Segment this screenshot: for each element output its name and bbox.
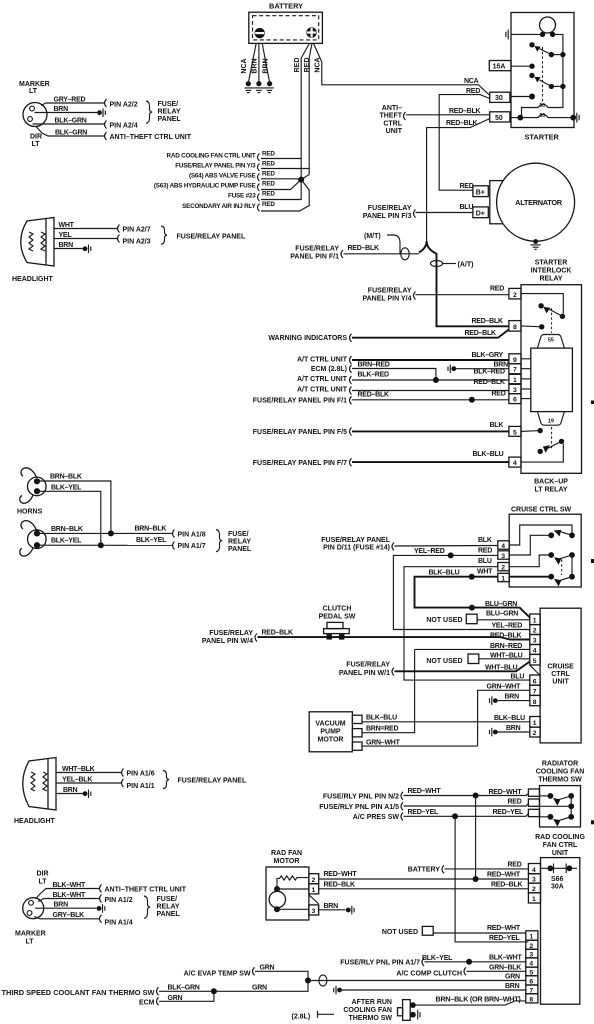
node hook PIN A1/7	[173, 542, 175, 550]
svg-text:BRN–RED: BRN–RED	[358, 361, 390, 368]
svg-text:(S63) ABS HYDRAULIC PUMP FUSE: (S63) ABS HYDRAULIC PUMP FUSE	[154, 183, 256, 190]
node junction BLK-YEL	[98, 542, 104, 548]
wire BRN to pin 8	[498, 700, 530, 702]
svg-text:8: 8	[513, 324, 517, 331]
svg-text:RED: RED	[466, 88, 480, 95]
svg-text:RED–YEL: RED–YEL	[489, 935, 521, 942]
svg-text:WHT–BLK: WHT–BLK	[62, 766, 95, 773]
wire GRN-WHT corner	[477, 742, 479, 746]
svg-text:BLK: BLK	[490, 422, 504, 429]
svg-text:BRN: BRN	[505, 694, 520, 701]
pin 2 lower cruise unit	[530, 727, 540, 737]
svg-text:BLK–GRN: BLK–GRN	[55, 118, 87, 125]
wire BLK-GRN marker	[33, 123, 105, 125]
node hook PIN A1/8	[173, 530, 175, 538]
svg-text:B+: B+	[476, 189, 485, 196]
wire battery minus BRN	[258, 43, 260, 82]
svg-text:RED: RED	[492, 391, 506, 398]
svg-text:FUSE/RELAY: FUSE/RELAY	[368, 205, 412, 212]
svg-text:NOT USED: NOT USED	[382, 929, 418, 936]
lamp marker lt 2	[15, 871, 49, 946]
label SECONDARY AIR INJ RLY row	[182, 201, 275, 212]
svg-text:MOTOR: MOTOR	[318, 737, 344, 744]
pin 3 cruise sw	[498, 551, 509, 560]
node hook PIN A2/7	[118, 225, 120, 233]
thermo sw stub 3	[528, 809, 539, 816]
svg-text:GRN: GRN	[260, 964, 275, 971]
suppressor BRN rad pin7	[334, 986, 342, 995]
wire cruise sw right link	[571, 555, 573, 577]
label FUSE/RELAY PANEL PIN W/4	[202, 630, 253, 645]
suppressor BRN pin 7	[448, 365, 456, 374]
rad fan motor circle	[269, 886, 285, 912]
svg-text:PIN A1/1: PIN A1/1	[127, 783, 155, 790]
svg-text:PEDAL SW: PEDAL SW	[319, 614, 356, 621]
wire RED pin A1/5	[404, 804, 529, 807]
node junction GRN ecm	[211, 988, 217, 994]
dashed link starter switches	[542, 47, 544, 103]
wire GRN evap	[255, 971, 308, 980]
wire M/T drop	[387, 235, 400, 254]
svg-text:RED–WHT: RED–WHT	[487, 925, 521, 932]
wire RED B joins junction	[301, 175, 309, 180]
label RAD COOLING FAN CTRL UNIT row	[167, 151, 276, 162]
node hook anti-theft	[105, 132, 107, 140]
svg-text:RED: RED	[262, 171, 275, 178]
wire motor pin3	[277, 908, 309, 910]
node hook PIN A2/2	[105, 99, 107, 107]
node hook PIN F/5	[350, 428, 352, 436]
ground alternator	[530, 239, 540, 249]
svg-text:BLU: BLU	[478, 558, 492, 565]
svg-text:THEFT: THEFT	[379, 113, 402, 120]
label STARTER INTERLOCK RELAY	[531, 260, 572, 283]
node hook PIN Y/4	[414, 292, 416, 300]
svg-text:BLK–BLU: BLK–BLU	[473, 451, 504, 458]
svg-text:BLK–YEL: BLK–YEL	[51, 538, 82, 545]
wire BRN marker2	[35, 907, 97, 909]
page edge mark 1	[591, 401, 594, 405]
switch interlock top	[538, 303, 565, 319]
svg-text:COOLING FAN: COOLING FAN	[343, 1007, 392, 1014]
svg-text:PANEL: PANEL	[158, 116, 182, 123]
wire BRN-BLK horn2 to pin A1/8	[37, 532, 172, 534]
pin 2 rad fan	[309, 874, 319, 884]
svg-text:RED: RED	[460, 183, 474, 190]
suppressor BRN motor	[346, 906, 354, 915]
svg-text:3: 3	[533, 638, 537, 645]
svg-text:(S64) ABS VALVE FUSE: (S64) ABS VALVE FUSE	[189, 173, 256, 180]
svg-text:A/T CTRL UNIT: A/T CTRL UNIT	[297, 387, 348, 394]
svg-text:BATTERY: BATTERY	[408, 866, 441, 873]
svg-text:BLU: BLU	[460, 204, 474, 211]
label ANTI-THEFT CTRL UNIT (starter)	[379, 105, 402, 135]
relay coil top trapezoid	[537, 335, 564, 349]
svg-text:PIN A1/7: PIN A1/7	[178, 543, 206, 550]
clutch pedal switch	[324, 622, 350, 639]
svg-text:ALTERNATOR: ALTERNATOR	[515, 198, 563, 207]
svg-text:PANEL PIN W/4: PANEL PIN W/4	[202, 638, 253, 645]
svg-text:WARNING INDICATORS: WARNING INDICATORS	[268, 335, 347, 342]
svg-text:PIN A1/8: PIN A1/8	[178, 532, 206, 539]
svg-text:RADIATOR: RADIATOR	[542, 760, 578, 767]
svg-text:GRN–WHT: GRN–WHT	[366, 739, 401, 746]
wire pin8 to contact	[521, 325, 542, 328]
svg-text:RAD FAN: RAD FAN	[271, 850, 302, 857]
svg-text:BRN: BRN	[324, 903, 339, 910]
svg-text:1: 1	[533, 720, 537, 727]
svg-text:GRY–RED: GRY–RED	[54, 97, 86, 104]
wire BLK-BLU sw pin1 to unit pin1	[415, 577, 530, 618]
svg-text:FUSE/: FUSE/	[228, 531, 249, 538]
relay inner box	[531, 348, 573, 412]
pin 6 interlock	[509, 394, 521, 404]
svg-text:STARTER: STARTER	[525, 133, 560, 142]
svg-text:RED: RED	[262, 191, 275, 198]
wire BRN motor	[319, 909, 346, 911]
svg-text:BRN–BLK (OR BRN–WHT): BRN–BLK (OR BRN–WHT)	[436, 996, 521, 1003]
svg-text:PIN A2/3: PIN A2/3	[123, 239, 151, 246]
svg-text:PIN A2/4: PIN A2/4	[110, 123, 138, 130]
node hook anti-theft marker2	[100, 885, 102, 893]
wire BRN to pin 7	[456, 368, 509, 370]
svg-text:NCA: NCA	[464, 78, 479, 85]
svg-text:RED: RED	[262, 201, 275, 208]
svg-text:BRN: BRN	[54, 902, 69, 909]
dashed interlock bottom	[551, 427, 553, 449]
svg-text:2: 2	[532, 886, 536, 893]
wire battery plus RED B	[309, 43, 312, 174]
artifact square page edge	[591, 820, 594, 824]
wire BRN headlight2	[56, 793, 83, 795]
label FUSE/RELAY PANEL (horns)	[228, 531, 252, 553]
wire BLK to pin 5	[352, 430, 509, 432]
svg-text:BLK–WHT: BLK–WHT	[53, 882, 86, 889]
wire clutch pedal to unit pin3 (RED-BLK)	[258, 637, 530, 639]
wire battery minus BRN 2	[262, 43, 269, 82]
svg-text:GRN: GRN	[505, 974, 520, 981]
svg-text:BLK–RED: BLK–RED	[358, 372, 390, 379]
svg-text:(M/T): (M/T)	[364, 233, 381, 240]
connector ellipse M/T	[401, 248, 409, 260]
terminal B+	[473, 186, 488, 197]
pin 3 rad fan	[309, 905, 319, 915]
wire pin3 to relay	[521, 388, 531, 390]
svg-text:6: 6	[513, 397, 517, 404]
wire RED battery to pin 4	[445, 868, 529, 870]
svg-text:6: 6	[533, 678, 537, 685]
pin 5 interlock	[509, 426, 521, 436]
starter box	[511, 13, 574, 142]
svg-text:FUSE/RELAY: FUSE/RELAY	[209, 630, 253, 637]
svg-text:7: 7	[513, 367, 517, 374]
wire RED row4	[261, 180, 301, 190]
svg-text:YEL–RED: YEL–RED	[492, 622, 523, 629]
wire pin5 to contact	[521, 430, 540, 433]
node hook third speed	[157, 987, 159, 995]
wire BRN headlight	[54, 248, 83, 250]
vacuum pump stub 3	[352, 742, 362, 750]
wire warning indicators to pin 8	[352, 330, 509, 338]
svg-text:PANEL PIN Y/4: PANEL PIN Y/4	[362, 296, 411, 303]
wire pin7 to relay	[521, 368, 531, 370]
pin 5 cruise unit	[530, 654, 540, 665]
svg-text:5: 5	[533, 658, 537, 665]
svg-text:RED–WHT: RED–WHT	[487, 872, 521, 879]
label RADIATOR COOLING FAN THERMO SW	[536, 760, 585, 783]
node hook PIN N/2	[401, 792, 403, 800]
svg-text:30: 30	[495, 95, 503, 102]
wire BRN-RED from ECM	[352, 369, 436, 381]
brace fuse/relay panel (headlight 2)	[163, 771, 169, 789]
svg-text:FUSE/RELAY PANEL: FUSE/RELAY PANEL	[177, 234, 246, 241]
svg-text:FUSE/RLY PNL PIN A1/7: FUSE/RLY PNL PIN A1/7	[340, 960, 420, 967]
label FUSE/RELAY PANEL (marker)	[158, 101, 182, 123]
thermo sw contacts	[540, 793, 575, 827]
not used box 2	[426, 654, 478, 665]
not used box 3	[382, 926, 433, 935]
node hook PIN A1/4	[100, 915, 102, 923]
svg-text:A/T CTRL UNIT: A/T CTRL UNIT	[297, 376, 348, 383]
wire to cruise sw pin 4	[395, 545, 498, 548]
lamp marker lt	[19, 81, 50, 148]
svg-text:BRN: BRN	[252, 58, 259, 73]
node hook warning indicators	[350, 334, 352, 342]
ground starter right	[577, 113, 579, 123]
svg-text:PUMP: PUMP	[320, 729, 341, 736]
node junction RED pin6	[469, 397, 475, 403]
svg-text:PIN A1/2: PIN A1/2	[105, 897, 133, 904]
wire RED row1	[261, 158, 301, 160]
svg-text:RED–YEL: RED–YEL	[493, 809, 525, 816]
svg-text:BRN–RED: BRN–RED	[490, 643, 522, 650]
svg-text:RAD COOLING: RAD COOLING	[535, 834, 585, 841]
wire RED-BLK to 50	[406, 114, 490, 116]
wire RED-WHT motor to ctrl unit pin3	[319, 878, 529, 880]
svg-text:PIN A1/6: PIN A1/6	[127, 771, 155, 778]
pin 8 interlock	[509, 321, 521, 332]
pin 4 rad unit	[528, 864, 540, 874]
svg-text:HORNS: HORNS	[17, 509, 43, 516]
node junction YEL-RED	[448, 552, 454, 558]
wire BLK-YEL horn2 to pin A1/7	[37, 544, 172, 546]
svg-text:NCA: NCA	[241, 58, 248, 73]
node hook PIN D/11	[392, 543, 394, 551]
svg-text:RED: RED	[304, 58, 311, 73]
svg-text:MOTOR: MOTOR	[274, 858, 300, 865]
wire WHT-BLU to pin 5	[395, 662, 530, 672]
wire GRN-WHT to pin 7	[478, 690, 530, 742]
vacuum pump motor box	[309, 712, 352, 752]
thermo sw stub 2	[528, 799, 539, 806]
wire BRN-RED pump to pin4 riser	[362, 649, 415, 732]
not used box 1	[426, 614, 477, 624]
node junction RED-WHT	[473, 793, 479, 799]
label (S64) ABS VALVE FUSE row	[189, 171, 275, 182]
pin 7 interlock	[509, 364, 521, 374]
wire riser RED-YEL	[455, 816, 528, 942]
wire starter internal right bus	[553, 34, 563, 106]
wire GRN ecm	[159, 991, 214, 1001]
pin 1 rad fan	[309, 884, 319, 894]
svg-text:50: 50	[540, 103, 546, 109]
page edge mark 2	[591, 559, 594, 563]
rad fan resistor	[277, 876, 308, 889]
svg-text:RED: RED	[262, 161, 275, 168]
svg-text:BLK–WHT: BLK–WHT	[489, 955, 522, 962]
svg-text:FUSE/: FUSE/	[157, 896, 178, 903]
wire harness to pin8	[437, 325, 509, 327]
switch cruise top	[548, 530, 575, 538]
svg-text:UNIT: UNIT	[386, 128, 403, 135]
node hook PIN A1/6	[122, 769, 124, 777]
starter motor	[511, 17, 556, 37]
suppressor on BRN marker wire	[97, 109, 105, 118]
label FUSE/RELAY PANEL PIN Y/3 row	[175, 161, 275, 172]
wire BLK-YEL horn1	[37, 491, 101, 545]
svg-text:BLU–GRN: BLU–GRN	[486, 610, 518, 617]
svg-text:BRN: BRN	[59, 242, 74, 249]
node junction BRN-BLK	[108, 530, 114, 536]
svg-text:FUSE/: FUSE/	[158, 101, 179, 108]
label FUSE/RELAY PANEL PIN Y/4	[362, 288, 411, 303]
wire BLK-GRY to pin 9	[352, 359, 509, 361]
svg-text:GRN: GRN	[252, 985, 267, 992]
wire RED to pin 6	[352, 399, 509, 401]
svg-text:PIN A2/2: PIN A2/2	[110, 101, 138, 108]
svg-text:1: 1	[529, 934, 533, 941]
svg-text:4: 4	[513, 460, 517, 467]
svg-text:BLK–GRN: BLK–GRN	[55, 130, 87, 137]
svg-text:BLK–BLU: BLK–BLU	[494, 715, 525, 722]
pin 7 cruise unit	[530, 685, 540, 695]
wire RED row3	[261, 178, 301, 180]
svg-text:2: 2	[533, 730, 537, 737]
label FUSE/RELAY PANEL PIN F/1 (upper)	[290, 245, 339, 260]
pin 2 interlock	[509, 288, 521, 299]
svg-text:55: 55	[548, 337, 554, 343]
wire RED row5	[261, 180, 301, 200]
wire RED-BLK to pin 3	[352, 390, 509, 392]
svg-text:PANEL PIN F/1: PANEL PIN F/1	[290, 253, 339, 260]
suppressor BRN lower pin2	[490, 728, 498, 737]
svg-text:19: 19	[548, 419, 554, 425]
switch starter 1	[529, 42, 565, 57]
wire BLK-GRN marker 2 (to anti-theft)	[36, 127, 104, 137]
wire WHT-BLK headlight2	[56, 772, 121, 774]
wire WHT headlight	[54, 228, 117, 230]
svg-text:GRN: GRN	[168, 995, 183, 1002]
wire pin4 to switch	[521, 444, 563, 462]
svg-text:THERMO SW: THERMO SW	[348, 1015, 392, 1022]
svg-text:BLK–GRY: BLK–GRY	[472, 352, 504, 359]
pin 1 rad unit	[528, 893, 540, 903]
fuse 15A stub	[489, 61, 532, 71]
svg-text:RED–BLK: RED–BLK	[474, 379, 506, 386]
wire battery plus RED A	[301, 43, 309, 179]
switch interlock bottom	[538, 428, 565, 454]
node junction BLU-GRN	[469, 605, 475, 611]
svg-text:BRN–BLK: BRN–BLK	[50, 473, 82, 480]
pin 4 cruise sw	[498, 541, 509, 550]
label FUSE/RELAY PANEL PIN F/3	[363, 205, 412, 220]
svg-text:RED–WHT: RED–WHT	[489, 789, 523, 796]
svg-text:RED–BLK: RED–BLK	[348, 245, 380, 252]
svg-text:3: 3	[312, 908, 316, 915]
svg-text:RELAY: RELAY	[158, 109, 181, 116]
battery	[249, 2, 323, 44]
pin 4 cruise unit	[530, 645, 540, 655]
node 15A contact	[529, 63, 534, 68]
relay outer box	[521, 285, 582, 474]
thermo sw stub 1	[528, 789, 539, 796]
svg-text:1: 1	[501, 576, 505, 583]
node junction RED-YEL	[452, 813, 458, 819]
svg-text:30A: 30A	[551, 884, 564, 891]
svg-text:BRN: BRN	[63, 787, 78, 794]
node hook PIN F/7	[350, 458, 352, 466]
divider slant rad fan	[309, 895, 319, 904]
node junction RED-WHT riser	[473, 876, 479, 882]
svg-text:BRN: BRN	[505, 983, 520, 990]
svg-text:FUSE/RELAY PANEL: FUSE/RELAY PANEL	[321, 537, 390, 544]
svg-text:HEADLIGHT: HEADLIGHT	[12, 276, 54, 283]
node hook PIN A2/4	[105, 121, 107, 129]
node hook PIN W/4	[255, 634, 257, 642]
svg-text:BLK–YEL: BLK–YEL	[136, 537, 167, 544]
suppressor on BRN headlight wire	[83, 245, 91, 254]
svg-text:S66: S66	[551, 876, 564, 883]
wire RED to pin 2	[416, 294, 509, 296]
svg-text:NOT USED: NOT USED	[426, 617, 462, 624]
svg-text:RED–BLK: RED–BLK	[490, 632, 522, 639]
wire BRN-BLK horn1	[37, 481, 111, 533]
svg-text:BLK–BLU: BLK–BLU	[366, 715, 397, 722]
svg-text:PIN D/11 (FUSE #14): PIN D/11 (FUSE #14)	[323, 545, 390, 552]
svg-text:RED–BLK: RED–BLK	[358, 391, 390, 398]
svg-text:STARTER: STARTER	[535, 260, 568, 267]
label FUSE #23 row	[228, 191, 275, 202]
horn 1	[20, 468, 46, 503]
svg-text:5: 5	[513, 429, 517, 436]
svg-text:D+: D+	[476, 210, 485, 217]
svg-text:1: 1	[533, 618, 537, 625]
svg-text:HEADLIGHT: HEADLIGHT	[14, 818, 56, 825]
svg-text:(A/T): (A/T)	[458, 262, 474, 269]
suppressor on BRN marker2 wire	[97, 904, 105, 913]
svg-text:BLK–GRN: BLK–GRN	[168, 985, 200, 992]
svg-text:4: 4	[501, 543, 505, 550]
svg-text:RED–BLK: RED–BLK	[324, 881, 356, 888]
svg-text:PIN A1/4: PIN A1/4	[105, 919, 133, 926]
wire cruise sw pin3 path	[509, 535, 548, 555]
wire not used to rad pin 1	[433, 932, 526, 934]
svg-text:WHT: WHT	[59, 222, 75, 229]
svg-text:ECM: ECM	[139, 1000, 155, 1007]
svg-text:THERMO SW: THERMO SW	[538, 776, 582, 783]
svg-text:ANTI–: ANTI–	[382, 105, 402, 112]
pin 2 rad unit	[528, 883, 540, 893]
node hook PIN F/1 upper	[341, 250, 343, 258]
svg-text:FUSE #23: FUSE #23	[228, 193, 256, 200]
svg-text:BLU–GRN: BLU–GRN	[485, 601, 517, 608]
node hook PIN A1/2	[100, 895, 102, 903]
pin 2 cruise sw	[498, 563, 509, 572]
wire battery plus NCA to starter	[314, 43, 490, 95]
svg-text:BRN: BRN	[506, 725, 521, 732]
ground starter left	[506, 30, 508, 40]
vacuum pump stub 1	[352, 715, 362, 723]
